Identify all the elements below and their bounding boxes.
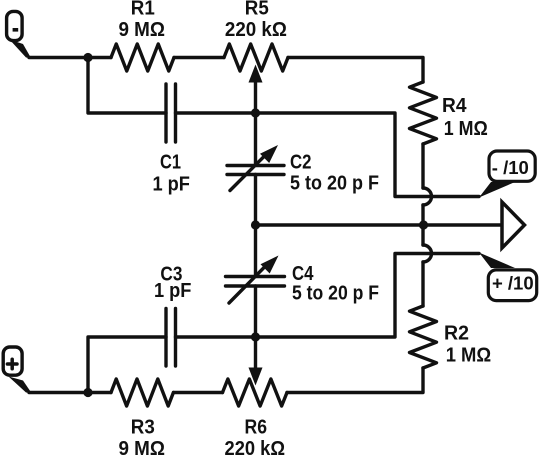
svg-text:R6: R6 [245,416,268,438]
svg-text:1 MΩ: 1 MΩ [444,118,488,140]
wire center node to output triangle [256,223,503,226]
svg-text:R1: R1 [131,0,155,19]
wire C4 to C3 node [254,286,257,337]
capacitor C4 (variable) [226,256,285,304]
svg-text:1 pF: 1 pF [152,174,190,196]
wire center node down to C4 [254,225,257,276]
callout - /10 [479,151,535,198]
junction dot center node left [251,220,260,229]
resistor R3 [111,379,173,406]
R5 wiper arrow [249,65,263,114]
callout + /10 [479,253,537,301]
wire input- to R1 [29,56,111,59]
svg-text:5 to 20 p F: 5 to 20 p F [290,172,379,194]
svg-text:220 kΩ: 220 kΩ [225,19,287,41]
svg-text:C1: C1 [160,152,181,174]
junction dot C1/wiper node [251,108,260,117]
capacitor C3 [166,309,176,367]
svg-text:R2: R2 [444,322,469,344]
svg-text:R4: R4 [442,95,467,117]
wire input+ to R3 [29,391,111,394]
junction dot node B [83,388,92,397]
junction dot node A [83,53,92,62]
svg-text:1 pF: 1 pF [154,280,192,302]
resistor R1 [111,44,174,71]
resistor R6 (pot body) [223,379,288,406]
junction dot center node right [419,220,428,229]
capacitor C2 (variable) [227,145,284,191]
wire center column C1-node to C2 [254,113,257,165]
wire C3 to right corner, up to +/10 [176,254,480,338]
svg-text:+ /10: + /10 [492,273,534,294]
svg-text:5 to 20 p F: 5 to 20 p F [292,283,379,305]
wire R2 to bottom wire [287,368,423,393]
wire R1 to R5 [174,56,224,59]
svg-text:220 kΩ: 220 kΩ [225,438,286,455]
wire R5 to top-right corner [288,58,423,83]
R6 wiper arrow [249,337,263,386]
svg-text:9 MΩ: 9 MΩ [118,438,165,455]
wire hop over +/10 line [423,245,432,262]
svg-text:R5: R5 [245,0,269,19]
junction dot C3/wiper node [251,332,260,341]
wire hop over -/10 line [423,188,432,205]
capacitor C1 [166,84,176,142]
svg-text:1 MΩ: 1 MΩ [446,345,492,367]
wire node B up to C3 [88,337,166,393]
resistor R4 [410,82,437,144]
terminal + (positive input) [3,347,31,393]
wire R6 to R3 [174,391,223,394]
svg-text:9 MΩ: 9 MΩ [118,19,165,41]
wire hop to R2 [421,262,424,306]
wire node A down to C1 [88,58,166,114]
wire C2 to center node [254,175,257,226]
resistor R5 (pot body) [224,44,288,71]
terminal - (negative input) [7,11,31,58]
svg-text:C2: C2 [290,152,312,174]
resistor R2 [410,306,437,368]
output buffer triangle [502,202,525,248]
wire R4 to hop [421,144,424,188]
wire hop to center node [421,205,424,245]
svg-text:- /10: - /10 [492,157,529,178]
svg-text:R3: R3 [131,416,155,438]
wire C1 to right corner, down to -/10 [176,113,480,197]
